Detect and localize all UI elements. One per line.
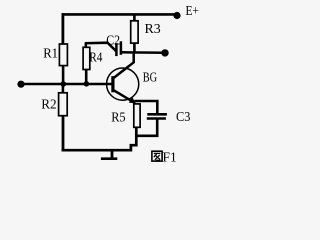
wire bottom rail (62, 145, 137, 150)
svg-text:R5: R5 (111, 111, 125, 126)
node E+ terminal (173, 12, 180, 19)
wire emitter node to C3 (134, 101, 157, 114)
resistor R1 (59, 44, 67, 66)
capacitor C3 (147, 113, 167, 116)
resistor R2 (62, 84, 65, 93)
svg-text:R2: R2 (41, 97, 56, 112)
node output terminal (161, 49, 168, 56)
wire R5 bottom leg (135, 127, 138, 146)
wire collector node (122, 51, 165, 54)
resistor R3 (133, 14, 136, 21)
svg-text:C2: C2 (106, 34, 120, 49)
wire R1 bottom leg (62, 65, 65, 85)
svg-text:R3: R3 (145, 22, 161, 37)
node junction R4-base (84, 81, 90, 87)
svg-text:E+: E+ (186, 4, 199, 19)
wire R4 top to C2 (85, 43, 116, 51)
wire R4 bottom leg (85, 69, 88, 84)
node junction R1-R2 (61, 81, 67, 87)
svg-text:BG: BG (143, 71, 157, 86)
resistor R5 (134, 104, 140, 127)
capacitor C2 (115, 43, 118, 56)
wire R2 bottom leg (62, 115, 65, 151)
node input terminal (17, 81, 24, 88)
transistor BG (107, 68, 139, 100)
wire collector (114, 52, 134, 78)
wire base (21, 83, 113, 86)
wire emitter (114, 90, 135, 103)
label figure 图 (152, 151, 162, 161)
wire top rail (62, 13, 177, 16)
wire C3 bottom (136, 119, 157, 136)
resistor R4 (83, 47, 90, 69)
wire left rail (62, 13, 65, 44)
svg-text:R1: R1 (43, 46, 58, 61)
ground (111, 150, 114, 158)
wire R3 bottom leg (133, 43, 136, 54)
svg-text:C3: C3 (176, 110, 190, 125)
svg-text:F1: F1 (163, 150, 177, 165)
svg-text:R4: R4 (89, 50, 102, 65)
